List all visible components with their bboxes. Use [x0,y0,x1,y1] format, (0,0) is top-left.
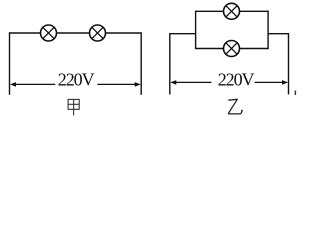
wire: series circuit top wire [10,32,142,34]
lamp L1 (series, left) [41,25,57,41]
wire: series circuit right vertical [140,32,142,95]
label: 甲 (jiǎ) character [68,99,79,115]
wire: parallel circuit right vertical [288,33,290,95]
lamp L3 (parallel, top) [224,3,240,19]
wire: parallel left connector [170,33,196,35]
dimension arrow right segment (series) [97,82,140,87]
wire: series circuit left vertical [9,32,11,95]
scan artifact tick at right edge [294,91,296,96]
wire: parallel circuit left vertical [169,33,171,95]
dimension arrow right segment (parallel) [255,80,288,85]
svg-text:220V: 220V [218,69,255,89]
lamp L2 (series, right) [90,25,106,41]
dimension arrow left segment (series) [10,82,55,87]
wire: parallel box right side [267,11,269,50]
lamp L4 (parallel, bottom) [224,41,240,57]
wire: parallel right connector [268,33,288,35]
dimension arrow left segment (parallel) [170,80,211,85]
label: 乙 (yǐ) character [228,99,243,114]
wire: parallel box top branch [196,10,269,12]
svg-text:220V: 220V [58,70,95,90]
wire: parallel box bottom branch [196,48,269,50]
wire: parallel box left side [195,11,197,50]
